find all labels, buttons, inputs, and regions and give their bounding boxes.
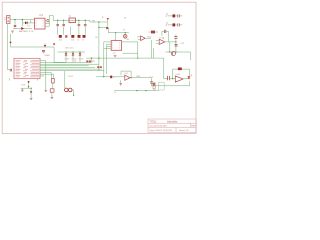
resistor R11 <box>151 31 155 34</box>
header P1 pads <box>86 60 91 62</box>
capacitor C11 on module left <box>10 69 11 72</box>
tiny marks row A <box>166 15 168 18</box>
motor wires <box>65 71 74 96</box>
wire row B <box>168 24 182 26</box>
svg-text:M1: M1 <box>127 39 130 41</box>
junction <box>98 21 99 22</box>
resistor R3 <box>71 35 74 38</box>
op-amp U1 <box>141 36 146 41</box>
op-amp U4 <box>125 75 130 80</box>
junction <box>169 51 170 52</box>
junction <box>91 57 92 58</box>
junction node <box>9 41 11 43</box>
power flag +5V <box>107 18 109 20</box>
junction <box>115 32 116 33</box>
transistor T2 <box>171 52 175 56</box>
junction <box>14 19 15 20</box>
LED D7 <box>72 53 75 55</box>
resistor R2 <box>65 35 67 37</box>
wire led rail <box>54 52 86 62</box>
motor M1 <box>65 88 72 92</box>
title block <box>148 119 196 132</box>
wire below module <box>10 61 46 98</box>
svg-text:1k: 1k <box>166 14 168 16</box>
svg-text:balbalaba: balbalaba <box>167 120 178 123</box>
svg-text:1k: 1k <box>113 77 115 79</box>
capacitor C1 <box>14 25 16 27</box>
tiny marks row B <box>166 24 168 27</box>
capacitor C10 <box>42 50 45 51</box>
junction <box>130 77 131 78</box>
junction <box>79 51 80 52</box>
junction <box>98 27 99 28</box>
svg-text:MOT: MOT <box>69 76 74 78</box>
microphone MIC1 <box>123 35 127 39</box>
junction <box>175 41 176 42</box>
svg-text:LED1: LED1 <box>64 59 70 61</box>
junction <box>136 90 137 91</box>
inductor L1 <box>47 20 49 23</box>
ground under IC2 <box>114 56 117 57</box>
module right pin wires <box>40 61 104 78</box>
capacitor C9 <box>175 45 178 46</box>
junction <box>63 20 64 21</box>
IC1 regulator box <box>35 18 46 29</box>
diode D9 <box>28 81 30 83</box>
diode D4 <box>106 27 109 30</box>
capacitor C15 feedback <box>164 30 166 33</box>
svg-text:IC3A: IC3A <box>160 37 165 40</box>
capacitor C6 <box>178 14 180 17</box>
junction <box>85 20 86 21</box>
resistor R15 <box>178 68 182 71</box>
net highlight box <box>159 83 165 91</box>
svg-text:3: 3 <box>36 26 37 28</box>
wire battery rail <box>7 24 54 70</box>
ground symbol <box>11 31 14 33</box>
capacitor C3 <box>62 24 65 26</box>
junction end <box>73 95 74 96</box>
junction <box>175 51 176 52</box>
svg-text:10k: 10k <box>59 40 62 42</box>
connector X1 <box>7 15 10 23</box>
power arrow <box>53 43 55 45</box>
wire R8 stubs <box>149 31 159 33</box>
svg-text:LED3: LED3 <box>78 59 84 61</box>
diode D11 on input <box>110 76 112 79</box>
svg-text:REV:: REV: <box>191 126 196 128</box>
feedback wires <box>162 31 169 42</box>
IC2 left wires <box>104 42 111 77</box>
IC2 right wires to opamp <box>122 37 151 58</box>
junction <box>65 51 66 52</box>
svg-text:6: 6 <box>43 26 44 28</box>
diode D1 <box>25 21 28 24</box>
resistor R4 <box>78 35 81 38</box>
IC2 box <box>111 41 121 51</box>
junction <box>78 20 79 21</box>
junction <box>103 76 104 77</box>
capacitor C7 <box>178 23 180 26</box>
ground pad <box>50 89 54 92</box>
resistor R6 <box>173 14 176 17</box>
svg-text:GSM: GSM <box>45 55 50 57</box>
svg-text:1k: 1k <box>77 40 79 42</box>
junction <box>137 57 138 58</box>
op-amp U5 <box>175 76 183 82</box>
U2 wires <box>151 35 190 61</box>
junction <box>98 57 99 58</box>
junction <box>57 20 58 21</box>
svg-text:1k: 1k <box>166 23 168 25</box>
junction <box>145 90 146 91</box>
svg-text:Document Number:: Document Number: <box>150 125 168 128</box>
resistor R1 <box>59 35 62 38</box>
junction node diamond <box>28 86 30 88</box>
junction <box>22 19 23 20</box>
resistor R12 vertical <box>52 78 55 83</box>
crystal Q1 <box>69 18 75 23</box>
capacitor C4 <box>78 24 81 26</box>
tiny label marks <box>102 16 104 19</box>
junction <box>172 78 173 79</box>
wire net to flag <box>90 20 129 58</box>
U5 wires <box>151 58 189 86</box>
svg-text:Sheet: 1/1: Sheet: 1/1 <box>179 129 189 132</box>
wire row A <box>168 15 182 17</box>
module U3 box <box>14 58 40 78</box>
svg-text:TITLE:: TITLE: <box>150 120 158 123</box>
svg-text:LED 5mm: LED 5mm <box>65 47 74 49</box>
junction <box>30 88 31 89</box>
resistor R5 <box>83 35 86 38</box>
wire rail VCC <box>53 20 90 35</box>
svg-text:3: 3 <box>112 48 113 50</box>
svg-text:1k: 1k <box>82 40 84 42</box>
svg-text:IC3B: IC3B <box>176 74 181 76</box>
transistor Q4 <box>153 83 156 85</box>
title block text <box>150 120 197 132</box>
LED D6 <box>65 53 68 55</box>
frame border <box>2 2 196 133</box>
ground symbols <box>21 90 53 99</box>
svg-text:Date: 1/10/17 10:35 PM: Date: 1/10/17 10:35 PM <box>150 129 172 132</box>
capacitor C2 <box>56 24 59 26</box>
svg-text:4: 4 <box>119 48 120 50</box>
op-amp U2 <box>159 39 165 44</box>
junction <box>125 32 126 33</box>
capacitor C8 (polarized) <box>174 37 177 39</box>
IC1 right wires <box>45 16 53 27</box>
module pin text rows <box>16 60 40 77</box>
capacitor C13 <box>168 76 170 80</box>
resistor R7 <box>173 23 176 26</box>
capacitor C12 <box>150 82 153 84</box>
bottom net wire <box>114 90 159 92</box>
diode D10 on vertical <box>30 91 32 93</box>
wire riser to mid trunk <box>86 58 164 71</box>
svg-text:BATTERY 3.7V: BATTERY 3.7V <box>19 30 34 33</box>
U4 input wire <box>96 71 151 83</box>
LED D8 <box>79 53 82 55</box>
svg-text:10k: 10k <box>71 40 74 42</box>
wire connector to IC1 <box>10 20 35 29</box>
wire mic to IC2 <box>116 33 126 41</box>
power arrow 2 <box>44 45 47 47</box>
diode D2 <box>21 27 24 30</box>
ground under op-amp <box>119 84 122 86</box>
capacitor C5 <box>84 24 87 26</box>
header P2 pads <box>97 66 102 68</box>
LED D5 <box>188 76 191 79</box>
junction <box>72 51 73 52</box>
